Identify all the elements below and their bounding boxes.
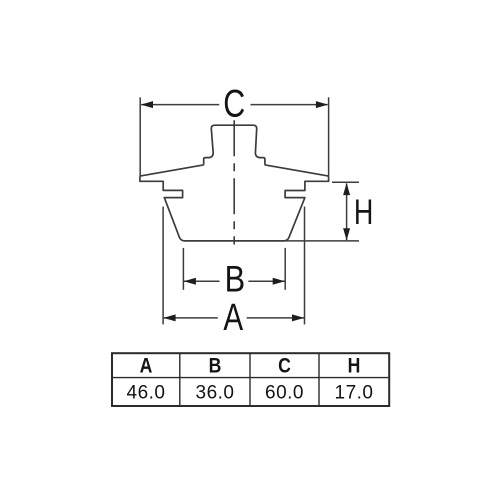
- svg-text:C: C: [278, 354, 291, 378]
- table column line 1: [179, 353, 181, 406]
- label H: [354, 193, 373, 232]
- C arrowhead right: [316, 101, 328, 108]
- header H: [348, 354, 361, 378]
- label A: [223, 297, 243, 339]
- svg-text:B: B: [209, 354, 222, 378]
- C extension line left: [139, 97, 141, 176]
- label B: [225, 259, 246, 301]
- svg-text:36.0: 36.0: [196, 383, 235, 404]
- svg-text:H: H: [348, 354, 361, 378]
- svg-text:A: A: [140, 354, 153, 378]
- header B: [209, 354, 222, 378]
- H arrowhead up: [343, 183, 350, 195]
- H extension line bottom (continues cup bottom edge): [283, 240, 359, 242]
- A dimension line: [164, 317, 218, 319]
- C extension line right: [328, 97, 330, 176]
- dimension table frame: [112, 353, 389, 406]
- B arrowhead left: [184, 278, 196, 285]
- A extension line left: [162, 207, 164, 325]
- table column line 3: [318, 353, 320, 406]
- A arrowhead left: [163, 314, 175, 321]
- svg-text:46.0: 46.0: [127, 383, 166, 404]
- H arrowhead down: [343, 228, 350, 240]
- svg-text:H: H: [354, 193, 373, 232]
- svg-text:B: B: [225, 259, 246, 301]
- table column line 2: [249, 353, 251, 406]
- A arrowhead right: [292, 314, 304, 321]
- H dimension line: [346, 184, 348, 241]
- part outline (drain plug cross-section): [140, 125, 329, 241]
- B extension line right: [284, 248, 286, 290]
- header A: [140, 354, 153, 378]
- svg-text:60.0: 60.0: [265, 383, 304, 404]
- svg-text:A: A: [223, 297, 243, 339]
- B extension line left: [182, 248, 184, 290]
- header C: [278, 354, 291, 378]
- A extension line right: [304, 207, 306, 325]
- B dimension line: [184, 280, 220, 282]
- svg-text:C: C: [223, 82, 245, 125]
- C dimension line: [141, 104, 219, 106]
- B arrowhead right: [273, 278, 285, 285]
- C arrowhead left: [141, 101, 153, 108]
- centerline (dash-dot vertical axis): [233, 120, 235, 244]
- H extension line top: [332, 181, 359, 183]
- table header row line: [112, 377, 389, 379]
- svg-text:17.0: 17.0: [335, 383, 374, 404]
- label C: [223, 82, 245, 125]
